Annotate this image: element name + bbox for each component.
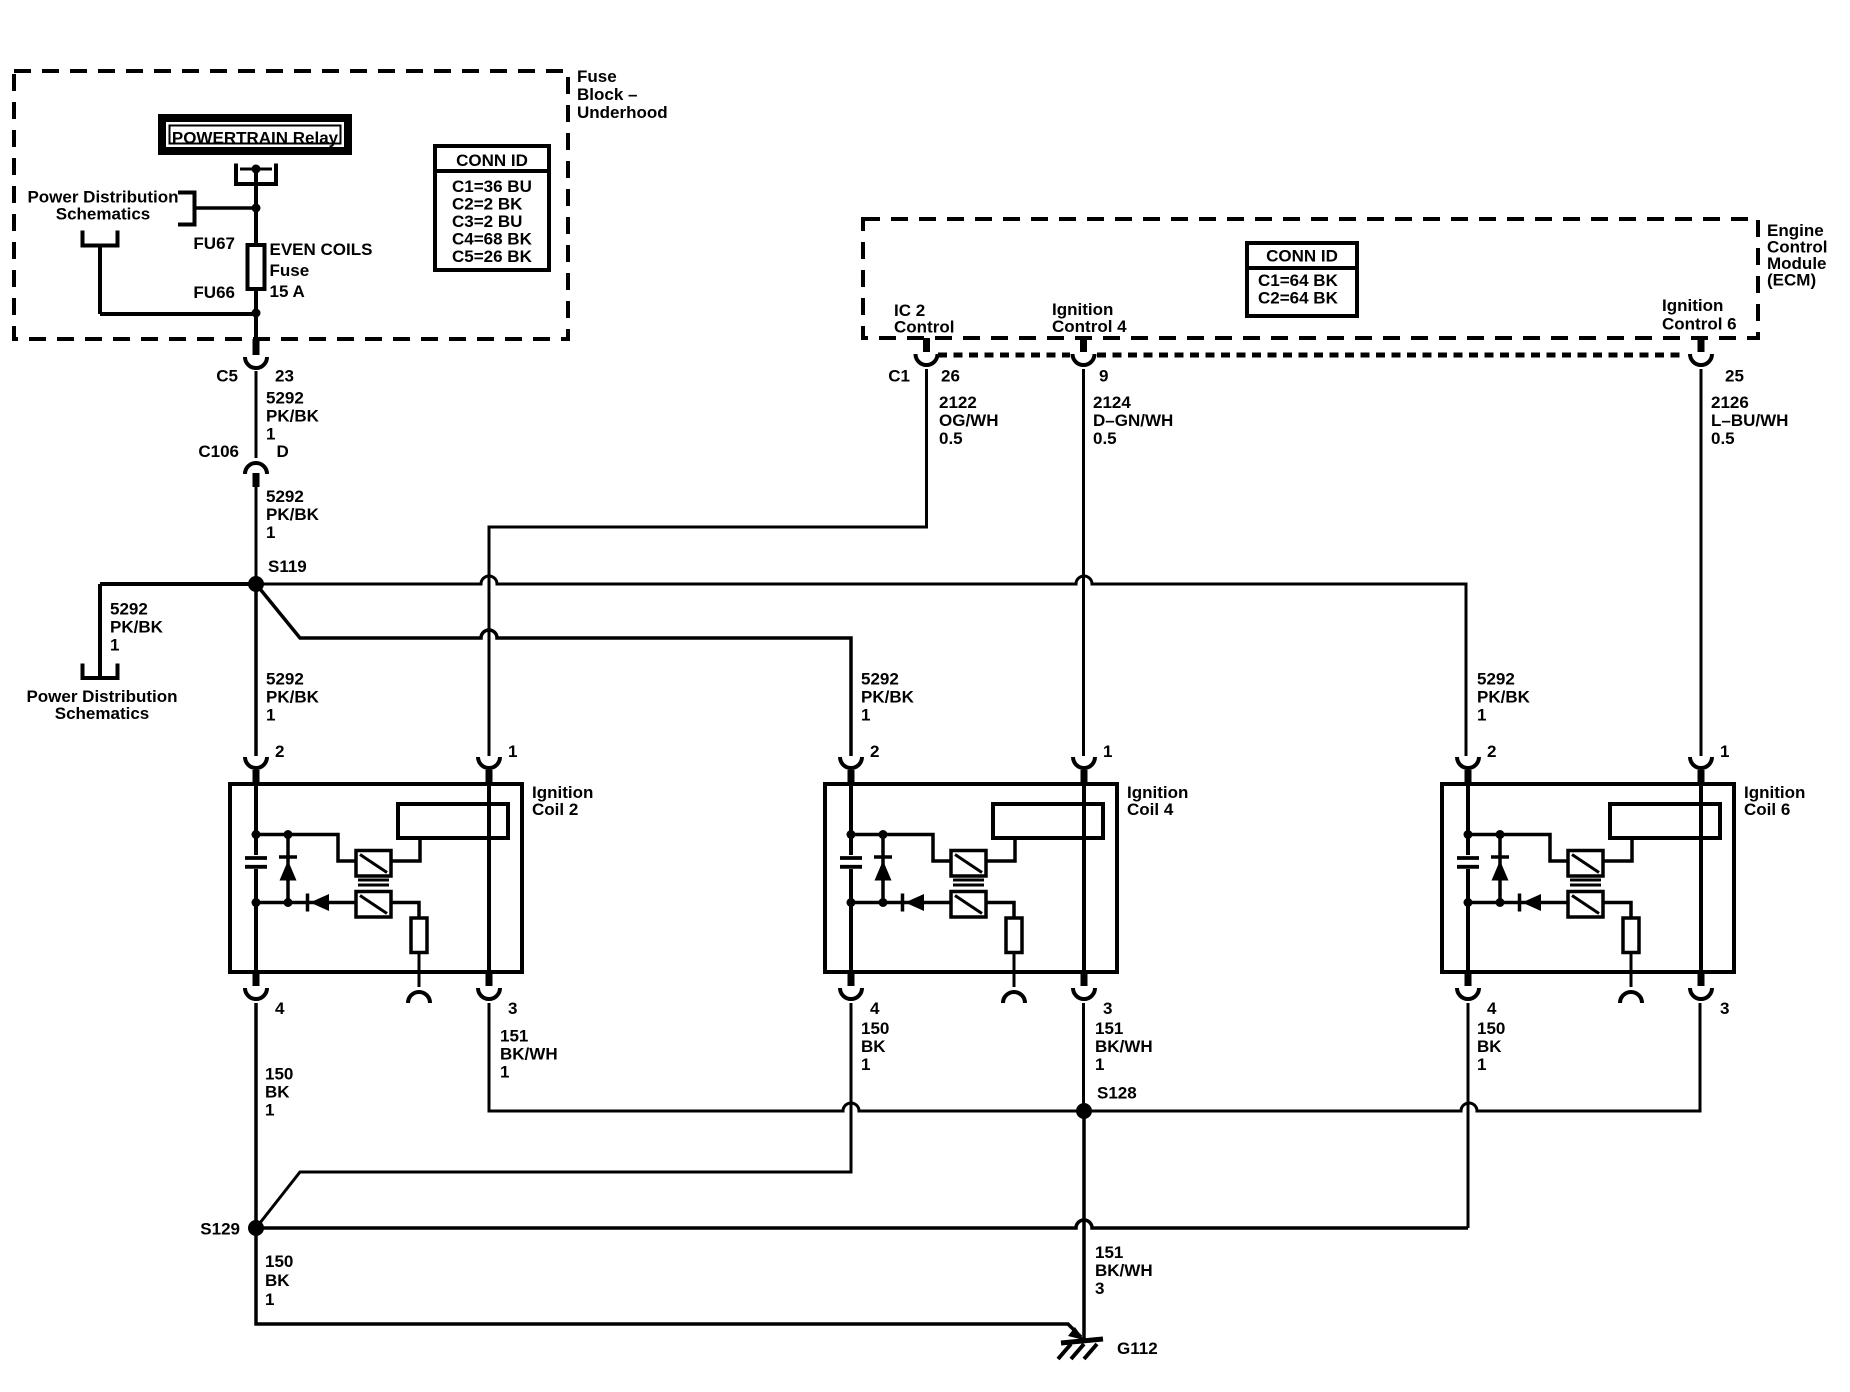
- relay contact symbol: [234, 164, 278, 185]
- svg-text:1: 1: [1095, 1055, 1104, 1074]
- svg-text:151: 151: [500, 1027, 528, 1046]
- svg-text:C1=36 BU: C1=36 BU: [452, 177, 532, 196]
- svg-text:BK: BK: [265, 1271, 290, 1290]
- svg-text:150: 150: [265, 1065, 293, 1084]
- svg-text:151: 151: [1095, 1019, 1123, 1038]
- svg-text:0.5: 0.5: [1711, 429, 1735, 448]
- svg-text:BK/WH: BK/WH: [500, 1045, 558, 1064]
- svg-text:C3=2 BU: C3=2 BU: [452, 212, 522, 231]
- wire 5292 PK/BK to S119: [255, 487, 258, 584]
- wire coil4 pin3 to S128: [1082, 1003, 1085, 1111]
- svg-text:Coil 2: Coil 2: [532, 800, 578, 819]
- svg-text:1: 1: [1720, 742, 1729, 761]
- svg-text:BK: BK: [1477, 1037, 1502, 1056]
- svg-text:5292: 5292: [266, 669, 304, 688]
- svg-text:1: 1: [265, 1101, 274, 1120]
- connector C5 pin 23: [253, 339, 260, 355]
- svg-text:1: 1: [266, 523, 275, 542]
- svg-text:23: 23: [275, 366, 294, 385]
- svg-text:PK/BK: PK/BK: [266, 505, 320, 524]
- svg-text:BK/WH: BK/WH: [1095, 1037, 1153, 1056]
- CONN ID table (fuse block): [435, 146, 549, 270]
- relay K: POWERTRAIN Relay label box: [162, 118, 348, 151]
- node: relay feed junction: [252, 204, 261, 213]
- svg-text:S119: S119: [268, 557, 307, 576]
- svg-text:Underhood: Underhood: [577, 103, 668, 122]
- svg-text:Schematics: Schematics: [56, 205, 151, 224]
- svg-text:C2=64 BK: C2=64 BK: [1258, 288, 1339, 307]
- svg-text:0.5: 0.5: [939, 429, 963, 448]
- svg-text:EVEN COILS: EVEN COILS: [270, 240, 373, 259]
- svg-text:CONN ID: CONN ID: [456, 151, 528, 170]
- svg-text:PK/BK: PK/BK: [110, 617, 164, 636]
- svg-text:4: 4: [870, 999, 880, 1018]
- wire 5292 PK/BK: [255, 371, 258, 458]
- wire coil6 pin4 down: [1467, 1003, 1470, 1228]
- svg-text:150: 150: [265, 1252, 293, 1271]
- off-page bracket (Power Distribution Schematics, bottom): [83, 664, 118, 679]
- svg-text:1: 1: [861, 705, 870, 724]
- wire S129 run to coil6 pin4 (hop at 1084): [256, 1220, 1468, 1228]
- svg-text:4: 4: [275, 999, 285, 1018]
- svg-text:C1: C1: [888, 366, 910, 385]
- svg-text:150: 150: [861, 1019, 889, 1038]
- svg-text:1: 1: [266, 705, 275, 724]
- svg-text:0.5: 0.5: [1093, 429, 1117, 448]
- svg-text:Coil 4: Coil 4: [1127, 800, 1174, 819]
- svg-text:PK/BK: PK/BK: [1477, 687, 1531, 706]
- svg-text:BK: BK: [861, 1037, 886, 1056]
- svg-text:C5: C5: [216, 366, 238, 385]
- svg-text:1: 1: [1477, 1055, 1486, 1074]
- wire S119 diagonal branch to coil4 pin2 (hop at 489): [256, 584, 851, 756]
- svg-text:C2=2 BK: C2=2 BK: [452, 194, 523, 213]
- svg-text:1: 1: [110, 635, 119, 654]
- svg-text:3: 3: [1103, 999, 1112, 1018]
- wire coil4 pin4 jog to S129: [256, 1003, 851, 1228]
- svg-text:Control 4: Control 4: [1052, 317, 1127, 336]
- svg-text:Ignition: Ignition: [1662, 296, 1723, 315]
- wire S119 right branch to coil6 pin2 (hops at 489,1084): [256, 576, 1466, 756]
- wire IC2 control to coil2 pin1: [489, 369, 927, 756]
- ECM pin stubs and connector cups: [923, 338, 930, 352]
- svg-text:1: 1: [500, 1063, 509, 1082]
- wire Ignition Control 4 to coil4 pin1: [1082, 369, 1085, 756]
- wire S128 down to ground: [1082, 1111, 1086, 1339]
- svg-text:(ECM): (ECM): [1767, 270, 1816, 289]
- svg-text:5292: 5292: [266, 487, 304, 506]
- svg-text:Fuse: Fuse: [270, 261, 310, 280]
- svg-text:PK/BK: PK/BK: [266, 687, 320, 706]
- svg-text:9: 9: [1099, 366, 1108, 385]
- svg-text:S128: S128: [1097, 1083, 1137, 1102]
- ignition coil 6: [1442, 770, 1734, 987]
- svg-text:1: 1: [1103, 742, 1112, 761]
- splice node S119: [248, 576, 264, 592]
- svg-text:FU66: FU66: [193, 283, 235, 302]
- CONN ID table (ECM): [1247, 243, 1357, 316]
- wire S119 left branch: [100, 584, 256, 677]
- svg-text:G112: G112: [1117, 1339, 1158, 1358]
- svg-text:3: 3: [1720, 999, 1729, 1018]
- ignition coil 2: [230, 770, 522, 987]
- svg-text:25: 25: [1725, 366, 1744, 385]
- svg-text:26: 26: [941, 366, 960, 385]
- fuse block dashed box: Fuse Block - Underhood: [14, 71, 568, 339]
- svg-text:5292: 5292: [861, 669, 899, 688]
- svg-text:1: 1: [266, 425, 275, 444]
- svg-text:PK/BK: PK/BK: [861, 687, 915, 706]
- svg-text:4: 4: [1487, 999, 1497, 1018]
- svg-text:5292: 5292: [1477, 669, 1515, 688]
- svg-text:Control: Control: [894, 317, 954, 336]
- node below fuse: [252, 309, 261, 318]
- svg-text:Coil 6: Coil 6: [1744, 800, 1790, 819]
- svg-text:3: 3: [508, 999, 517, 1018]
- svg-text:S129: S129: [200, 1219, 240, 1238]
- wire coil2 pin4 to S129 and ground run: [256, 1003, 1081, 1337]
- svg-text:Control 6: Control 6: [1662, 314, 1737, 333]
- svg-text:5292: 5292: [266, 389, 304, 408]
- wire Ignition Control 6 to coil6 pin1: [1700, 369, 1703, 756]
- svg-text:1: 1: [1477, 705, 1486, 724]
- svg-text:PK/BK: PK/BK: [266, 407, 320, 426]
- svg-text:151: 151: [1095, 1243, 1123, 1262]
- wire relay to junction: [254, 169, 258, 243]
- svg-text:C4=68 BK: C4=68 BK: [452, 229, 533, 248]
- svg-text:C5=26 BK: C5=26 BK: [452, 247, 533, 266]
- off-page bracket lower-left: [83, 231, 118, 246]
- svg-text:BK/WH: BK/WH: [1095, 1261, 1153, 1280]
- splice node S129: [248, 1220, 264, 1236]
- wire from bracket to fuse bottom junction: [100, 246, 256, 315]
- svg-text:POWERTRAIN Relay: POWERTRAIN Relay: [172, 129, 339, 148]
- svg-text:Schematics: Schematics: [55, 704, 150, 723]
- svg-text:BK: BK: [265, 1083, 290, 1102]
- svg-text:Fuse: Fuse: [577, 67, 617, 86]
- splice node S128: [1076, 1103, 1092, 1119]
- svg-text:C1=64 BK: C1=64 BK: [1258, 271, 1339, 290]
- ground G112: [1061, 1339, 1103, 1343]
- svg-text:2: 2: [870, 742, 879, 761]
- svg-text:OG/WH: OG/WH: [939, 411, 999, 430]
- fuse FU67/FU66 EVEN COILS 15A: [248, 245, 265, 289]
- off-page connector bracket (Power Distribution Schematics, top): [178, 193, 195, 225]
- svg-text:2124: 2124: [1093, 393, 1131, 412]
- ECM dashed box: Engine Control Module: [863, 219, 1758, 338]
- wire S119 to coil2 pin2: [254, 584, 258, 756]
- svg-text:2126: 2126: [1711, 393, 1749, 412]
- svg-text:1: 1: [508, 742, 517, 761]
- svg-text:D–GN/WH: D–GN/WH: [1093, 411, 1173, 430]
- svg-text:3: 3: [1095, 1279, 1104, 1298]
- wire to Power Distribution bracket: [196, 206, 256, 210]
- wire coil2 pin3 to S128 to coil6 pin3 (hops at 851,1469): [489, 1003, 1700, 1111]
- svg-text:5292: 5292: [110, 599, 148, 618]
- svg-text:1: 1: [861, 1055, 870, 1074]
- svg-text:Block –: Block –: [577, 85, 637, 104]
- svg-text:150: 150: [1477, 1019, 1505, 1038]
- arrowhead into ground: [1068, 1327, 1084, 1340]
- svg-text:D: D: [277, 442, 289, 461]
- ignition coil 4: [825, 770, 1117, 987]
- svg-text:C106: C106: [198, 442, 239, 461]
- svg-text:L–BU/WH: L–BU/WH: [1711, 411, 1788, 430]
- svg-text:CONN ID: CONN ID: [1266, 246, 1338, 265]
- svg-text:2122: 2122: [939, 393, 977, 412]
- svg-text:2: 2: [275, 742, 284, 761]
- svg-text:2: 2: [1487, 742, 1496, 761]
- svg-text:15 A: 15 A: [270, 282, 305, 301]
- ECM connector dotted line C1: [938, 353, 1686, 358]
- svg-text:1: 1: [265, 1290, 274, 1309]
- svg-text:FU67: FU67: [193, 234, 235, 253]
